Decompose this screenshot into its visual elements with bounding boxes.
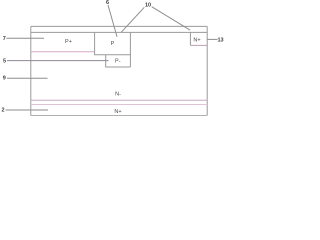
device outline bottom edge — [31, 115, 207, 117]
leader 13 — [207, 38, 217, 40]
svg-text:5: 5 — [3, 59, 6, 65]
leader 7 — [6, 37, 44, 39]
P well box — [95, 32, 131, 54]
svg-text:13: 13 — [217, 38, 223, 44]
N+ box bottom junction — [190, 44, 207, 46]
surface line — [31, 31, 207, 33]
device outline right edge — [206, 26, 208, 115]
device outline left edge — [30, 26, 32, 115]
svg-text:9: 9 — [3, 76, 6, 82]
svg-text:7: 7 — [3, 36, 6, 42]
N+ box top right — [189, 32, 191, 45]
P- box right edge — [129, 55, 131, 67]
svg-text:P+: P+ — [65, 39, 72, 45]
svg-text:P: P — [111, 41, 115, 47]
leader 6 — [108, 5, 117, 37]
device outline top edge — [31, 25, 207, 27]
svg-text:N-: N- — [115, 91, 121, 97]
bottom junction line 2 (pink) — [31, 104, 207, 106]
leader 10 right leg — [152, 7, 191, 31]
P+ junction (pink) — [31, 51, 95, 53]
leader 10 left leg — [121, 7, 144, 32]
svg-text:P-: P- — [115, 59, 121, 65]
leader 2 — [6, 109, 48, 111]
leader 9 — [7, 77, 48, 79]
bottom junction line 1 (pink-gray) — [31, 99, 207, 101]
P- box — [106, 55, 131, 67]
svg-text:2: 2 — [1, 108, 4, 114]
svg-text:10: 10 — [145, 3, 151, 9]
leader 5 — [7, 60, 109, 62]
svg-text:N+: N+ — [193, 38, 200, 44]
svg-text:N+: N+ — [114, 109, 121, 115]
